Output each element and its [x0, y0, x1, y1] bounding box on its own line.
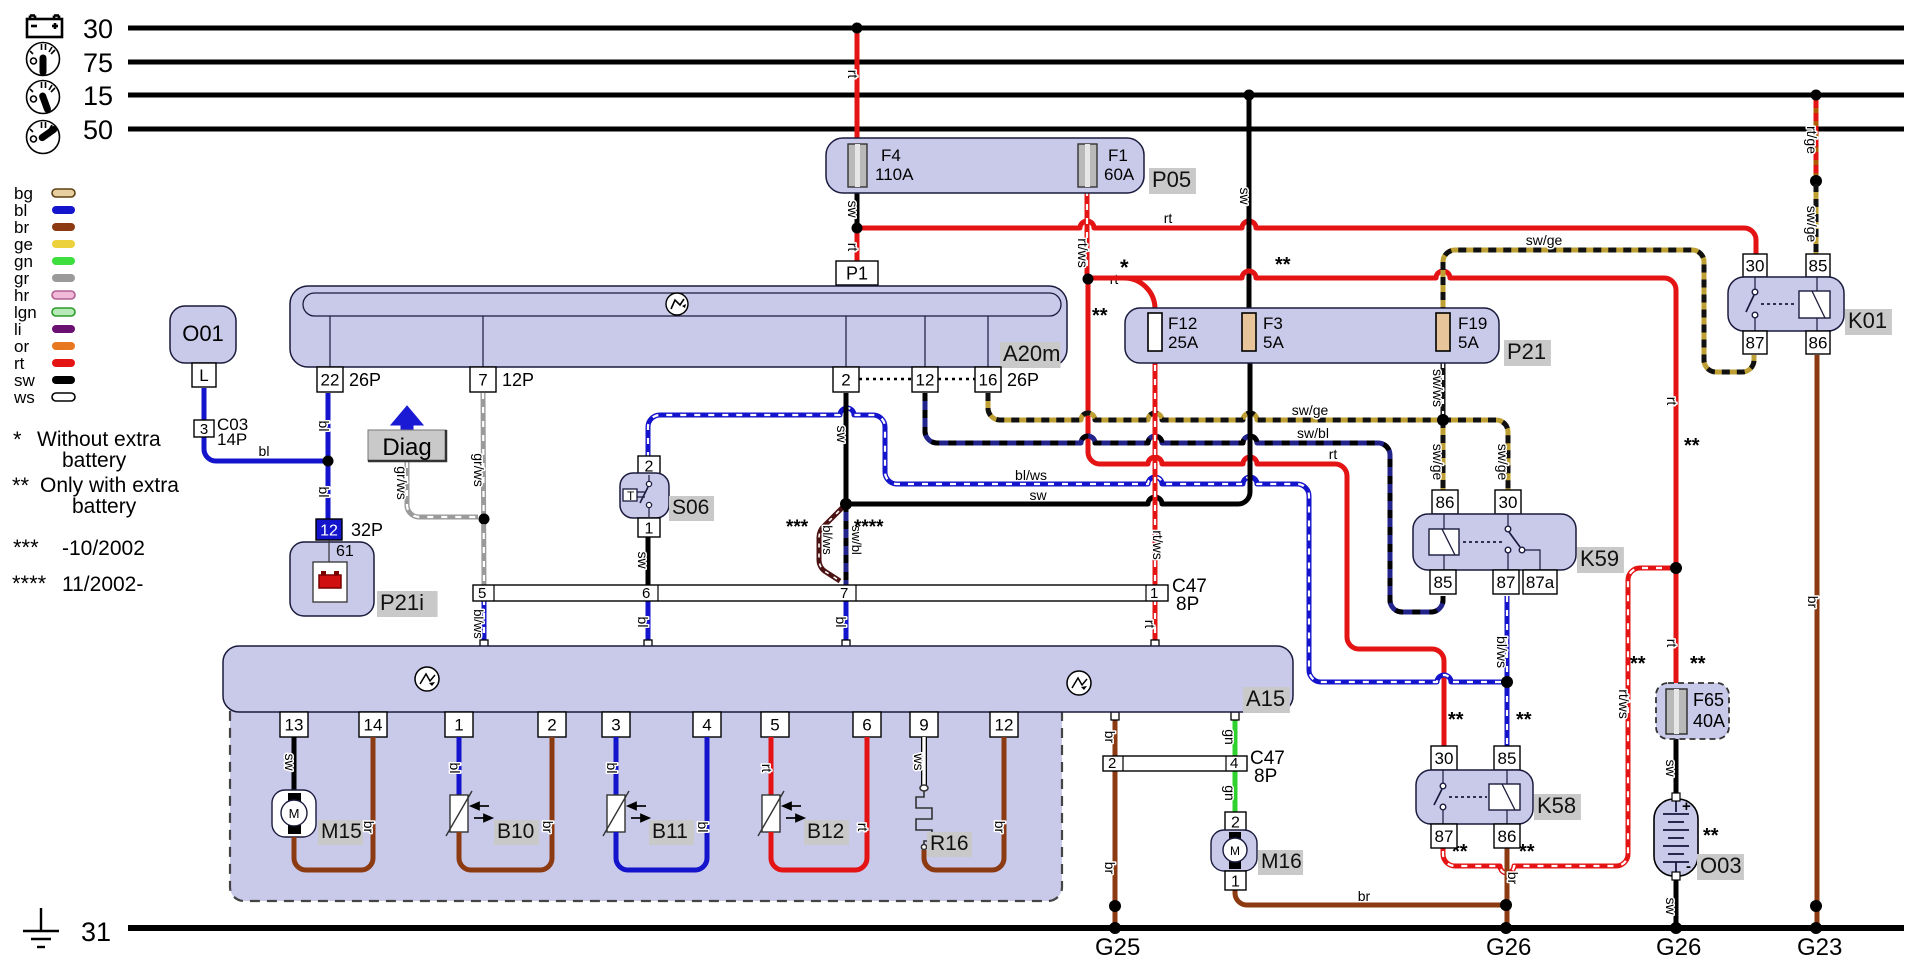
- wire gn A15 to C47 pin 4: [1233, 718, 1238, 758]
- pin 12: [912, 367, 938, 392]
- bus line 75: [128, 60, 1904, 65]
- svg-text:A15: A15: [1246, 686, 1285, 711]
- svg-text:7: 7: [840, 585, 848, 602]
- svg-text:bl: bl: [604, 763, 620, 774]
- motor M15: [272, 790, 316, 837]
- svg-text:rt: rt: [1329, 446, 1338, 462]
- svg-text:F1: F1: [1108, 146, 1128, 165]
- svg-text:13: 13: [285, 716, 304, 735]
- svg-text:6: 6: [862, 716, 871, 735]
- relay K59: [1432, 490, 1458, 514]
- svg-text:1: 1: [645, 520, 654, 537]
- svg-text:85: 85: [1434, 573, 1453, 592]
- svg-text:P1: P1: [846, 263, 868, 283]
- motor M16: [1211, 830, 1257, 871]
- svg-text:sw/ge: sw/ge: [1526, 232, 1563, 248]
- svg-text:5: 5: [770, 716, 779, 735]
- wire rt to F65: [1674, 568, 1679, 686]
- fuse F19 5A: [1436, 313, 1450, 351]
- svg-text:B10: B10: [497, 820, 534, 843]
- node bl/ws junction: [1501, 676, 1513, 688]
- svg-text:P21i: P21i: [380, 590, 424, 615]
- fuse F1 60A: [1078, 144, 1097, 187]
- bus line 31: [128, 925, 1904, 931]
- svg-text:gr/ws: gr/ws: [471, 453, 487, 486]
- wire bl O01 to C03: [202, 388, 207, 420]
- node rt splice x1676: [1670, 562, 1682, 574]
- svg-text:G26: G26: [1486, 934, 1531, 959]
- node G23 upper: [1810, 900, 1822, 912]
- svg-text:sw: sw: [845, 200, 861, 218]
- svg-text:2: 2: [1231, 814, 1240, 831]
- node sw junction: [840, 498, 852, 510]
- svg-text:**: **: [1275, 254, 1291, 276]
- svg-text:***: ***: [13, 535, 39, 560]
- bus line 15: [128, 93, 1904, 98]
- wire bl C03 to junction: [204, 436, 328, 461]
- svg-text:br: br: [540, 821, 556, 834]
- svg-text:bl: bl: [447, 763, 463, 774]
- A15 pin 4: [693, 712, 721, 737]
- svg-text:P21: P21: [1507, 339, 1546, 364]
- relay K58: [1431, 746, 1457, 770]
- svg-text:R16: R16: [930, 832, 969, 855]
- svg-text:**: **: [1516, 709, 1532, 731]
- svg-text:sw: sw: [1029, 487, 1047, 503]
- wire sw/ws F19 to junction: [1441, 351, 1446, 420]
- A15 pin 12: [990, 712, 1018, 737]
- node G26 right: [1670, 922, 1682, 934]
- svg-text:battery: battery: [62, 449, 127, 472]
- wire gr/ws A20m pin7 to C47 pin 5: [483, 393, 484, 587]
- wire br M16 pin1 to G26: [1235, 887, 1505, 905]
- svg-text:F12: F12: [1168, 314, 1197, 333]
- svg-text:sw/ge: sw/ge: [1495, 444, 1511, 481]
- svg-text:14P: 14P: [217, 430, 247, 449]
- svg-text:**: **: [1448, 709, 1464, 731]
- wire br M15 to pin 14: [294, 737, 373, 870]
- svg-text:8P: 8P: [1254, 766, 1277, 787]
- svg-text:Only with extra: Only with extra: [40, 474, 179, 497]
- wire rt vertical x1088 down to row: [1088, 278, 1444, 748]
- svg-text:G25: G25: [1095, 934, 1140, 959]
- svg-text:**: **: [1690, 653, 1706, 675]
- svg-text:****: ****: [12, 571, 47, 596]
- svg-text:50: 50: [83, 115, 113, 145]
- svg-text:battery: battery: [72, 495, 137, 518]
- wire sw junction to F3: [846, 351, 1250, 504]
- svg-text:rt: rt: [759, 764, 775, 773]
- A15 pin 3: [602, 712, 630, 737]
- svg-text:86: 86: [1809, 334, 1828, 353]
- node F4 junction: [852, 223, 863, 234]
- node G25: [1109, 922, 1121, 934]
- sensor B10: [450, 795, 468, 832]
- node bus15/rt-ge junction: [1811, 90, 1822, 101]
- svg-text:5: 5: [478, 585, 486, 602]
- svg-text:O01: O01: [182, 321, 224, 346]
- wire bl/ws C47 pin5 to A15: [482, 599, 487, 644]
- svg-text:bl: bl: [259, 443, 270, 459]
- svg-text:3: 3: [611, 716, 620, 735]
- A15 icon right: [1067, 671, 1091, 695]
- wire rt/ws from splice to K58 pin 87: [1443, 568, 1676, 873]
- svg-text:gn: gn: [1222, 785, 1238, 801]
- svg-text:F3: F3: [1263, 314, 1283, 333]
- svg-text:11/2002-: 11/2002-: [62, 573, 143, 596]
- wire sw/bl A20m pin12 to K59 pin 85: [925, 393, 1443, 612]
- svg-text:30: 30: [83, 14, 113, 44]
- svg-text:61: 61: [336, 543, 354, 560]
- svg-text:15: 15: [83, 81, 113, 111]
- A15 pin 2: [538, 712, 566, 737]
- svg-text:bl: bl: [695, 822, 711, 833]
- svg-text:87: 87: [1497, 573, 1516, 592]
- svg-text:4: 4: [1230, 755, 1238, 772]
- svg-text:rt/ws: rt/ws: [1150, 530, 1166, 560]
- A15 pin 9: [910, 712, 938, 737]
- svg-text:ws: ws: [13, 388, 35, 407]
- A15 icon left: [415, 667, 439, 691]
- svg-text:B12: B12: [807, 820, 844, 843]
- svg-text:sw/ge: sw/ge: [1292, 402, 1329, 418]
- Diag arrow: [391, 406, 423, 431]
- svg-text:rt: rt: [855, 823, 871, 832]
- svg-text:M: M: [1230, 844, 1240, 858]
- svg-text:br: br: [1505, 872, 1521, 885]
- svg-text:K01: K01: [1848, 308, 1887, 333]
- fuse F12 25A: [1148, 313, 1162, 351]
- svg-text:**: **: [1519, 841, 1535, 863]
- svg-text:2: 2: [841, 371, 850, 390]
- svg-text:85: 85: [1498, 749, 1517, 768]
- connector pin 12 32P: [316, 519, 342, 540]
- svg-text:12: 12: [995, 716, 1014, 735]
- svg-text:2: 2: [547, 716, 556, 735]
- wire rt to K01 pin 30: [857, 221, 1756, 256]
- svg-text:Diag: Diag: [382, 434, 431, 461]
- ignition switch terminal-15 icon: [27, 81, 60, 114]
- svg-text:bl: bl: [316, 487, 332, 498]
- wire rt bus30 to P05 F4: [855, 28, 860, 140]
- battery terminal-30 icon: [27, 16, 62, 38]
- svg-text:87: 87: [1435, 827, 1454, 846]
- svg-text:br: br: [1358, 888, 1371, 904]
- svg-text:gn: gn: [1222, 729, 1238, 745]
- svg-text:sw/ws: sw/ws: [1430, 369, 1446, 407]
- svg-text:K58: K58: [1537, 793, 1576, 818]
- svg-text:br: br: [1805, 596, 1821, 609]
- wire bl/ws junction to K58 pin 85: [1505, 682, 1510, 748]
- svg-text:br: br: [1102, 731, 1118, 744]
- svg-text:sw: sw: [282, 753, 298, 771]
- svg-text:22: 22: [321, 371, 340, 390]
- svg-text:T: T: [627, 489, 635, 503]
- component O01: [170, 306, 236, 363]
- wire br R16 to pin 12: [924, 737, 1004, 870]
- svg-text:bl: bl: [316, 421, 332, 432]
- wire bl C47 pin6 to A15: [646, 599, 651, 644]
- pin 1 S06: [638, 518, 660, 537]
- wire rt junction to vertical x1676: [1088, 271, 1676, 568]
- ignition switch terminal-50 icon: [27, 121, 60, 154]
- svg-text:5A: 5A: [1458, 333, 1479, 352]
- svg-text:rt: rt: [1664, 639, 1680, 648]
- pin 2 S06: [638, 456, 660, 475]
- wire gn C47 pin4 to M16 pin 2: [1233, 769, 1238, 814]
- svg-text:5A: 5A: [1263, 333, 1284, 352]
- svg-text:***: ***: [786, 517, 809, 538]
- svg-text:14: 14: [364, 716, 383, 735]
- Diag box: [368, 430, 446, 461]
- resistor R16: [916, 785, 932, 850]
- svg-text:25A: 25A: [1168, 333, 1199, 352]
- svg-text:sw/bl: sw/bl: [1297, 425, 1329, 441]
- fuse F4 110A: [848, 144, 867, 187]
- svg-text:**: **: [1092, 305, 1108, 327]
- svg-text:M: M: [289, 806, 300, 821]
- svg-text:A20m: A20m: [1003, 341, 1060, 366]
- svg-text:26P: 26P: [1007, 370, 1039, 390]
- svg-text:G23: G23: [1797, 934, 1842, 959]
- wire ws A15 pin9 to R16: [921, 737, 927, 786]
- svg-text:bl/ws: bl/ws: [471, 609, 486, 639]
- svg-text:F4: F4: [881, 146, 901, 165]
- wire bl junction to P21i pin12: [326, 461, 331, 521]
- A15 pin 13: [280, 712, 308, 737]
- svg-text:M16: M16: [1261, 850, 1302, 873]
- pin 2: [833, 367, 859, 392]
- svg-text:rt: rt: [1664, 397, 1680, 406]
- svg-text:**: **: [1630, 653, 1646, 675]
- svg-text:rt/ws: rt/ws: [1075, 238, 1091, 268]
- wire bl A20m pin22 to junction: [326, 393, 331, 461]
- heater control unit A15 bar: [223, 646, 1293, 712]
- svg-text:rt: rt: [1164, 210, 1173, 226]
- pin 16 26P: [975, 367, 1001, 392]
- svg-text:rt: rt: [1142, 620, 1158, 629]
- wire rt C47 pin1 to A15: [1153, 599, 1158, 644]
- svg-text:sw/ge: sw/ge: [1804, 206, 1820, 243]
- svg-text:bl: bl: [833, 617, 849, 628]
- svg-text:sw/ge: sw/ge: [1430, 444, 1446, 481]
- wire sw A20m pin2 to junction: [844, 393, 849, 504]
- svg-text:86: 86: [1436, 493, 1455, 512]
- svg-text:32P: 32P: [351, 520, 383, 540]
- wire bl/ws S06 pin2 to K59/K58: [648, 408, 1507, 682]
- svg-text:7: 7: [478, 371, 487, 390]
- svg-text:85: 85: [1809, 257, 1828, 276]
- svg-text:30: 30: [1499, 493, 1518, 512]
- svg-text:sw: sw: [635, 551, 651, 569]
- ground symbol line 31: [23, 908, 59, 947]
- wire sw/ge junction to K59 pin 30: [1443, 420, 1508, 492]
- wire sw A15 pin13 to M15: [292, 737, 297, 792]
- svg-text:+: +: [1682, 798, 1691, 815]
- svg-text:F65: F65: [1693, 690, 1724, 710]
- svg-text:O03: O03: [1700, 853, 1742, 878]
- svg-text:2: 2: [1108, 755, 1116, 772]
- wire rt/ws F1 to junction: [1085, 190, 1090, 278]
- wire rt/ws F12 to C47 pin 1: [1153, 351, 1158, 587]
- svg-text:30: 30: [1746, 257, 1765, 276]
- wire bl/ws (***) junction to C47 pin7: [819, 504, 846, 581]
- svg-text:8P: 8P: [1176, 594, 1199, 615]
- svg-text:rt: rt: [845, 70, 861, 79]
- relay K01: [1743, 254, 1767, 277]
- wire sw S06 pin1 to C47 pin 6: [646, 537, 651, 587]
- fuse box P21: [1125, 308, 1499, 363]
- svg-text:G26: G26: [1656, 934, 1701, 959]
- node gr/ws junction: [479, 514, 490, 525]
- svg-text:S06: S06: [672, 496, 709, 519]
- svg-text:gr/ws: gr/ws: [394, 466, 410, 499]
- svg-text:110A: 110A: [875, 165, 914, 184]
- sensor B11: [607, 795, 625, 832]
- wire sw O03 to line31: [1674, 876, 1679, 928]
- svg-text:9: 9: [919, 716, 928, 735]
- svg-text:br: br: [1102, 862, 1118, 875]
- wire rt junction to F12: [1088, 278, 1155, 315]
- battery icon P21i: [319, 575, 341, 588]
- svg-text:*: *: [13, 427, 22, 452]
- wire sw/ge A20m pin16 to K59: [988, 393, 1443, 420]
- svg-text:br: br: [361, 821, 377, 834]
- svg-text:3: 3: [200, 421, 208, 438]
- battery O03: [1654, 799, 1698, 876]
- pin 7 12P: [470, 367, 496, 392]
- svg-text:87a: 87a: [1526, 573, 1555, 592]
- svg-text:F19: F19: [1458, 314, 1487, 333]
- sensor B12: [762, 795, 780, 832]
- svg-text:bl/ws: bl/ws: [1015, 467, 1047, 483]
- wire rt/ge bus15 to splice: [1814, 95, 1819, 178]
- svg-text:rt/ws: rt/ws: [1616, 689, 1632, 719]
- wire br B10 to pin 2: [459, 737, 552, 870]
- svg-text:B11: B11: [652, 820, 688, 843]
- svg-text:87: 87: [1746, 334, 1765, 353]
- svg-text:12P: 12P: [502, 370, 534, 390]
- node bl junction: [323, 456, 334, 467]
- node bus30/P05 junction: [852, 23, 863, 34]
- connector C47 8P (lower): [1103, 756, 1247, 771]
- svg-text:**: **: [1703, 825, 1719, 847]
- connector C03 14P pin 3: [194, 420, 214, 437]
- svg-text:ws: ws: [911, 752, 927, 770]
- svg-text:sw: sw: [1237, 187, 1253, 205]
- wire bl A15 pin1 to B10: [457, 737, 462, 795]
- wire sw bus15 to F3: [1247, 95, 1252, 315]
- svg-text:1: 1: [1231, 873, 1240, 890]
- fuse F65 40A: [1656, 683, 1729, 739]
- node G26 upper: [1500, 899, 1512, 911]
- wire bl C47 pin7 to A15: [844, 599, 849, 644]
- svg-text:bl/ws: bl/ws: [1494, 636, 1510, 668]
- wire br K01 pin86 to G23: [1815, 355, 1820, 928]
- wire bl/ws K59 pin 87 to junction: [1505, 596, 1510, 682]
- svg-text:-10/2002: -10/2002: [62, 537, 145, 560]
- wire rt junction to P1: [855, 228, 860, 262]
- pin 2 M16: [1225, 812, 1246, 831]
- fuse box P05: [826, 138, 1144, 193]
- pin 1 M16: [1225, 871, 1246, 890]
- wire bl B11 to pin 4: [616, 737, 707, 870]
- svg-text:bl: bl: [635, 617, 651, 628]
- svg-text:Without extra: Without extra: [37, 428, 161, 451]
- bus line 30: [128, 26, 1904, 31]
- svg-text:1: 1: [454, 716, 463, 735]
- svg-text:P05: P05: [1152, 167, 1191, 192]
- svg-text:-: -: [1686, 858, 1691, 875]
- svg-text:****: ****: [854, 517, 884, 538]
- wire sw/ge splice to K01 pin 85: [1814, 184, 1819, 256]
- pin L: [192, 363, 216, 387]
- switch S06: [620, 473, 669, 518]
- A15 pin 1: [445, 712, 473, 737]
- svg-text:60A: 60A: [1104, 165, 1135, 184]
- svg-text:6: 6: [642, 585, 650, 602]
- svg-text:**: **: [12, 473, 30, 498]
- svg-text:M15: M15: [321, 820, 362, 843]
- svg-text:rt/ge: rt/ge: [1804, 126, 1820, 154]
- svg-text:30: 30: [1435, 749, 1454, 768]
- wire rt A15 pin5 to B12: [769, 737, 774, 795]
- node rt junction below F1: [1083, 274, 1094, 285]
- wire sw F65 to O03: [1674, 739, 1679, 800]
- wire bl A15 pin3 to B11: [614, 737, 619, 795]
- control unit icon A20m: [666, 293, 688, 315]
- svg-text:12: 12: [320, 522, 338, 539]
- wire sw/ge junction to K59 pin 86: [1441, 420, 1446, 492]
- wire br A15 to G25: [1113, 718, 1118, 928]
- wire br K58 pin86 to G26: [1505, 846, 1510, 928]
- dotted link pins 2-12-16: [859, 378, 912, 380]
- svg-text:75: 75: [83, 48, 113, 78]
- svg-text:sw: sw: [834, 425, 850, 443]
- svg-text:4: 4: [702, 716, 711, 735]
- wire rt B12 to pin 6: [771, 737, 867, 870]
- svg-text:26P: 26P: [349, 370, 381, 390]
- wire sw F4 to junction: [855, 190, 860, 228]
- svg-text:16: 16: [979, 371, 998, 390]
- svg-text:bl/ws: bl/ws: [820, 525, 835, 555]
- ignition switch terminal-75 icon: [27, 43, 60, 76]
- svg-text:sw: sw: [1663, 897, 1679, 915]
- svg-text:1: 1: [1150, 585, 1158, 602]
- node G26: [1500, 922, 1512, 934]
- wire gr/ws Diag to junction: [407, 462, 478, 517]
- pin 22 26P: [317, 367, 343, 392]
- bus line 50: [128, 127, 1904, 132]
- svg-text:rt: rt: [845, 243, 861, 252]
- node rt/ge splice: [1810, 175, 1822, 187]
- connector C47 8P (upper): [473, 585, 1168, 601]
- heater unit A15 dashed enclosure: [230, 690, 1062, 901]
- fuse F3 5A: [1242, 313, 1256, 351]
- wire sw/ge F19 to K01 pin 87: [1443, 250, 1754, 372]
- svg-text:**: **: [1684, 435, 1700, 457]
- node bus15 junction: [1244, 90, 1255, 101]
- node G25 upper: [1109, 900, 1121, 912]
- svg-text:br: br: [992, 821, 1008, 834]
- svg-text:12: 12: [916, 371, 935, 390]
- battery unit P21i: [290, 542, 374, 616]
- node sw/ge junction: [1437, 414, 1449, 426]
- svg-text:sw: sw: [1663, 759, 1679, 777]
- node G23: [1810, 922, 1822, 934]
- connector P1: [836, 261, 878, 285]
- svg-text:L: L: [199, 366, 208, 385]
